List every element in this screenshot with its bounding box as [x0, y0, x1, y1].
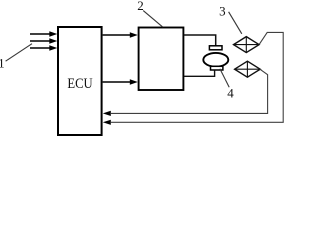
input wire arrow c — [30, 45, 57, 50]
driver box 2 — [139, 28, 184, 91]
svg-text:3: 3 — [219, 4, 226, 19]
feedback wire from bottom diamond to ECU — [103, 69, 268, 116]
wire ECU to driver box (bottom) — [103, 79, 138, 84]
input wire arrow b — [30, 38, 57, 43]
valve sensor 3a (top diamond) — [234, 37, 260, 53]
svg-text:1: 1 — [0, 55, 5, 70]
valve sensor 3b (bottom diamond) — [235, 61, 261, 77]
feedback wire from top diamond to ECU — [103, 32, 283, 125]
pointer line for label 2 — [143, 11, 162, 27]
svg-text:2: 2 — [137, 0, 144, 13]
ECU box — [58, 27, 102, 135]
wire motor bottom to driver box — [184, 70, 215, 76]
input wire arrow a — [30, 31, 57, 36]
motor M4 body — [203, 53, 228, 67]
svg-text:ECU: ECU — [67, 76, 93, 92]
wire ECU to driver box (top) — [103, 32, 138, 37]
pointer line for label 3 — [229, 12, 242, 34]
wire driver box to motor top — [184, 35, 216, 46]
svg-text:4: 4 — [227, 85, 234, 100]
motor M4 top cap — [209, 46, 222, 50]
pointer line for label 4 — [220, 69, 229, 87]
motor M4 bottom cap — [211, 66, 223, 70]
pointer line for label 1 — [6, 44, 32, 62]
